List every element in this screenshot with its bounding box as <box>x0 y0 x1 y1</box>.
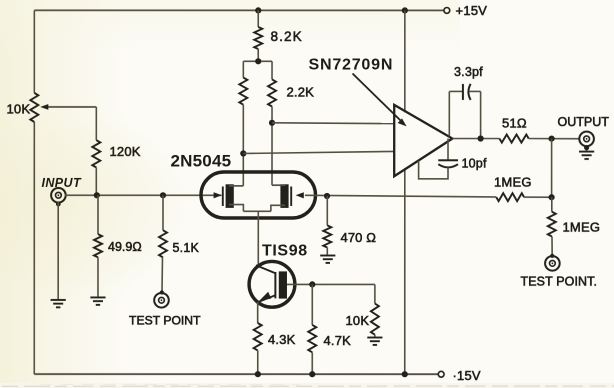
svg-text:SN72709N: SN72709N <box>309 56 394 73</box>
transistor TIS98 base bar <box>279 271 287 298</box>
ground below OUTPUT <box>579 152 594 159</box>
potentiometer 10K body <box>30 93 38 122</box>
capacitor 3.3pf right wire <box>469 90 481 92</box>
resistor 120K <box>92 140 100 167</box>
wire base line to 10K corner <box>312 283 375 285</box>
wire left vertical from +15V rail to 10K pot <box>33 10 35 93</box>
svg-text:4.7K: 4.7K <box>323 333 351 348</box>
svg-text:4.3K: 4.3K <box>268 332 296 347</box>
resistor 5.1K <box>159 230 167 257</box>
capacitor 10pf flat plate <box>438 159 458 161</box>
wire left drain resistor to JFET drain <box>242 105 244 186</box>
wire OUTPUT terminal ground stub <box>586 146 588 151</box>
wire 1MEG feedback to junction <box>524 196 552 198</box>
wire right gate line <box>305 195 496 197</box>
TIS98 base plate <box>274 272 276 298</box>
transistor TIS98 outline <box>249 261 295 307</box>
node 1MEG junction <box>548 194 554 200</box>
svg-text:2.2K: 2.2K <box>287 84 315 99</box>
node TP-right upper blob <box>550 254 554 258</box>
wire wiper down to 120K <box>95 107 97 140</box>
wire TIS98 emitter to 4.3K <box>257 302 259 323</box>
svg-text:2N5045: 2N5045 <box>171 151 232 170</box>
TIS98 emitter arrowhead <box>260 292 272 301</box>
resistor 51 ohm <box>499 135 528 143</box>
svg-text:5.1K: 5.1K <box>172 241 199 255</box>
TIS98 emitter lead <box>259 295 276 302</box>
svg-text:10K: 10K <box>345 313 369 328</box>
svg-text:8.2K: 8.2K <box>271 29 303 44</box>
resistor 4.3K <box>254 323 262 350</box>
ground below 49.9 ohm <box>90 297 105 304</box>
wire 470 top stub <box>326 196 328 225</box>
JFET B source lead <box>271 205 285 211</box>
dual JFET 2N5045 package outline <box>201 172 316 218</box>
capacitor 10pf bottom leg <box>419 161 448 179</box>
wire 5.1K top stub <box>162 195 164 230</box>
terminal INPUT <box>51 188 66 203</box>
wire drain branch tee <box>243 60 272 62</box>
svg-text:TEST POINT.: TEST POINT. <box>520 274 597 288</box>
node 2.2K / op-amp input junction <box>269 120 275 126</box>
resistor left drain (unlabeled) <box>239 78 247 105</box>
wire 10K right top stub <box>374 284 376 303</box>
terminal -15V <box>438 371 444 377</box>
TIS98 base lead <box>287 283 312 285</box>
svg-text:49.9Ω: 49.9Ω <box>108 240 142 254</box>
resistor 1MEG vertical <box>548 212 556 237</box>
wire 51 ohm to OUTPUT <box>529 138 580 140</box>
ground below INPUT <box>51 300 66 307</box>
node 4.3K / rail junction <box>255 371 261 377</box>
resistor 10K right <box>371 304 379 335</box>
resistor 1MEG feedback <box>496 193 524 201</box>
node TP-left upper blob <box>160 290 164 294</box>
wire 4.7K bottom stub <box>311 352 313 374</box>
resistor 470 ohm <box>323 225 331 247</box>
JFET A gate plate <box>222 186 224 206</box>
wire right drain to op-amp inverting input <box>272 122 394 125</box>
capacitor 3.3pf flat plate <box>462 84 464 100</box>
capacitor 3.3pf left wire <box>449 90 462 92</box>
wire 120K bottom to input line <box>95 167 97 195</box>
svg-text:120K: 120K <box>110 144 141 159</box>
JFET A source lead <box>229 205 243 212</box>
wire 49.9 bottom to ground <box>97 257 99 296</box>
node input/120K/49.9 junction <box>94 192 100 198</box>
svg-text:10pf: 10pf <box>462 156 487 170</box>
node output / 1MEG junction <box>549 136 555 142</box>
resistor 8.2K <box>254 27 262 49</box>
JFET A gate arrowhead <box>214 192 222 198</box>
wire op-amp V+ from top rail <box>404 10 406 112</box>
wire 4.3K bottom stub <box>257 350 259 374</box>
terminal TEST POINT right <box>545 256 560 271</box>
wire INPUT terminal down to ground <box>57 202 59 299</box>
ground below 470 ohm <box>320 256 335 263</box>
TIS98 collector lead <box>256 265 275 273</box>
wire 8.2K top stub <box>257 10 259 27</box>
capacitor 3.3pf curved plate <box>468 84 470 100</box>
wire 1MEG to test point <box>551 236 553 256</box>
svg-text:TEST POINT: TEST POINT <box>129 313 201 327</box>
svg-text:10K: 10K <box>7 101 31 116</box>
potentiometer 10K wiper arrow <box>40 104 96 110</box>
node gate / 470 ohm junction <box>324 193 330 199</box>
op-amp designator arrow <box>353 74 407 127</box>
svg-text:470 Ω: 470 Ω <box>340 230 376 245</box>
terminal TEST POINT left <box>154 293 169 308</box>
node INPUT terminal lower blob <box>56 202 61 207</box>
op-amp U1 SN72709N triangle <box>394 105 452 176</box>
JFET B channel bar <box>280 184 288 208</box>
svg-text:+15V: +15V <box>456 3 488 18</box>
capacitor 3.3pf right leg <box>480 91 482 138</box>
wire INPUT terminal to gate line <box>65 194 222 196</box>
wire 49.9 top stub <box>97 195 99 234</box>
node top rail / 8.2K junction <box>255 7 261 13</box>
node op-amp supply / rail junction <box>402 371 408 377</box>
resistor 49.9 ohm <box>94 234 102 257</box>
JFET B drain lead <box>272 184 285 186</box>
svg-text:1MEG: 1MEG <box>562 219 600 234</box>
terminal +15V <box>444 8 450 14</box>
wire 4.7K top stub <box>311 284 313 325</box>
svg-text:3.3pf: 3.3pf <box>454 65 483 79</box>
node 4.7K / rail junction <box>309 371 315 377</box>
terminal OUTPUT <box>579 132 594 147</box>
node base / 4.7K junction <box>309 281 315 287</box>
wire left drain to op-amp noninverting input <box>243 151 394 153</box>
capacitor 10pf top leg <box>447 139 449 161</box>
JFET B gate plate <box>290 186 292 206</box>
wire 2.2K bottom to JFET drain <box>271 106 273 185</box>
wire output down to 1MEG feedback <box>551 139 553 198</box>
svg-text:·15V: ·15V <box>452 368 480 383</box>
wire 10K right bottom stub <box>374 335 376 337</box>
JFET A drain lead <box>229 185 243 187</box>
wire 470 bottom stub <box>326 248 328 255</box>
capacitor 10pf curved plate <box>438 164 458 167</box>
svg-text:OUTPUT: OUTPUT <box>558 115 610 129</box>
wire common source bar <box>243 210 271 212</box>
svg-text:TIS98: TIS98 <box>262 243 308 260</box>
wire bottom -15V rail <box>34 373 438 375</box>
svg-text:51Ω: 51Ω <box>502 115 527 130</box>
wire left branch top stub <box>242 61 244 77</box>
resistor 2.2K <box>268 79 276 106</box>
JFET A channel bar <box>226 184 234 208</box>
node OUTPUT terminal lower blob <box>584 145 589 150</box>
node output / 3.3pf junction <box>478 135 484 141</box>
wire 8.2K bottom stub <box>257 49 259 61</box>
JFET B gate arrowhead <box>296 192 304 198</box>
wire 1MEG vertical top stub <box>551 197 553 211</box>
node top rail / op-amp V+ junction <box>402 7 408 13</box>
node left drain / op-amp input junction <box>240 150 246 156</box>
resistor 4.7K <box>308 325 316 352</box>
svg-text:1MEG: 1MEG <box>494 174 532 189</box>
wire 2.2K top stub <box>271 61 273 79</box>
wire op-amp V- to bottom rail <box>404 169 406 374</box>
wire top +15V rail <box>34 9 443 11</box>
wire op-amp output <box>452 138 499 140</box>
wire 5.1K bottom to test point <box>161 257 164 293</box>
node 8.2K / branch junction <box>255 58 261 64</box>
capacitor 3.3pf left leg <box>448 91 450 136</box>
wire 10K pot bottom to -15V rail <box>33 122 35 374</box>
wire source tail to TIS98 collector <box>257 211 259 266</box>
ground below 10K right <box>367 338 382 345</box>
node input/5.1K junction <box>160 192 166 198</box>
